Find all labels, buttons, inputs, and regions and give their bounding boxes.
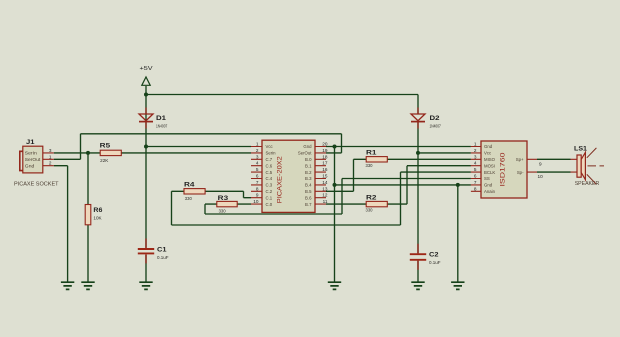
svg-text:C.2: C.2 (266, 189, 273, 194)
svg-text:SPEAKER: SPEAKER (575, 181, 600, 187)
svg-text:R4: R4 (184, 182, 195, 189)
svg-text:Gnd: Gnd (484, 183, 493, 188)
svg-text:20: 20 (322, 142, 328, 147)
svg-text:J1: J1 (26, 139, 35, 146)
svg-text:10K: 10K (93, 216, 102, 221)
svg-text:0.1uF: 0.1uF (429, 260, 441, 265)
svg-text:8: 8 (256, 186, 259, 191)
svg-text:1: 1 (49, 154, 52, 159)
svg-text:D1: D1 (156, 115, 166, 122)
svg-text:3: 3 (49, 148, 52, 153)
svg-text:SerIn: SerIn (25, 151, 37, 156)
svg-text:MISO: MISO (484, 157, 496, 162)
svg-text:Vcc: Vcc (484, 151, 492, 156)
svg-text:17: 17 (322, 161, 328, 166)
svg-text:LS1: LS1 (574, 146, 587, 153)
svg-text:C.4: C.4 (266, 176, 273, 181)
svg-text:2: 2 (474, 148, 477, 153)
svg-text:6: 6 (474, 174, 477, 179)
svg-text:+5V: +5V (140, 66, 153, 72)
svg-text:5: 5 (256, 167, 259, 172)
svg-text:9: 9 (256, 193, 259, 198)
svg-text:15: 15 (322, 174, 328, 179)
svg-text:C.7: C.7 (266, 157, 273, 162)
svg-text:B.2: B.2 (305, 170, 312, 175)
svg-text:BCLK: BCLK (484, 170, 495, 175)
svg-text:4: 4 (256, 161, 259, 166)
svg-text:16: 16 (322, 167, 328, 172)
svg-text:C.6: C.6 (266, 163, 273, 168)
svg-text:3: 3 (474, 154, 477, 159)
svg-text:8: 8 (474, 186, 477, 191)
svg-text:B.4: B.4 (305, 183, 312, 188)
svg-text:2: 2 (256, 148, 259, 153)
svg-text:10: 10 (253, 199, 259, 204)
svg-text:10: 10 (538, 174, 544, 179)
svg-text:Gnd: Gnd (303, 144, 312, 149)
svg-text:PICAXE-20X2: PICAXE-20X2 (277, 156, 284, 204)
svg-text:Anain: Anain (484, 189, 496, 194)
svg-text:ISD1760: ISD1760 (500, 152, 507, 187)
svg-text:1N4007: 1N4007 (156, 123, 168, 128)
svg-text:SerOut: SerOut (25, 157, 41, 162)
svg-text:R6: R6 (93, 207, 102, 214)
svg-text:C1: C1 (157, 247, 167, 254)
svg-text:330: 330 (219, 209, 226, 214)
svg-text:5: 5 (474, 167, 477, 172)
svg-text:Gnd: Gnd (25, 163, 35, 168)
svg-text:B.7: B.7 (305, 202, 312, 207)
svg-text:19: 19 (322, 148, 328, 153)
svg-text:R1: R1 (366, 150, 377, 157)
svg-text:9: 9 (539, 161, 542, 166)
svg-text:MOSI: MOSI (484, 163, 495, 168)
svg-text:330: 330 (366, 207, 373, 212)
svg-text:C.0: C.0 (266, 202, 273, 207)
svg-text:6: 6 (256, 174, 259, 179)
svg-text:B.0: B.0 (305, 157, 312, 162)
svg-text:1: 1 (474, 142, 477, 147)
svg-text:B.6: B.6 (305, 195, 312, 200)
svg-text:330: 330 (366, 163, 373, 168)
svg-text:B.1: B.1 (305, 163, 312, 168)
svg-text:C.1: C.1 (266, 195, 273, 200)
svg-text:D2: D2 (430, 115, 440, 122)
svg-text:7: 7 (256, 180, 259, 185)
svg-text:R2: R2 (366, 194, 377, 201)
svg-text:Vcc: Vcc (266, 144, 274, 149)
svg-text:4: 4 (474, 161, 477, 166)
svg-text:Sp-: Sp- (517, 170, 524, 175)
svg-text:C.3: C.3 (266, 183, 273, 188)
svg-text:13: 13 (322, 186, 328, 191)
svg-text:2: 2 (49, 161, 52, 166)
svg-text:18: 18 (322, 154, 328, 159)
svg-text:Serin: Serin (266, 151, 277, 156)
svg-text:C.5: C.5 (266, 170, 273, 175)
svg-text:C2: C2 (429, 252, 439, 259)
svg-text:12: 12 (322, 193, 328, 198)
svg-text:7: 7 (474, 180, 477, 185)
svg-text:0.1uF: 0.1uF (157, 255, 169, 260)
svg-text:3: 3 (256, 154, 259, 159)
svg-text:11: 11 (323, 199, 328, 204)
svg-text:SerOut: SerOut (298, 151, 312, 156)
svg-text:Sp+: Sp+ (516, 157, 524, 162)
svg-text:330: 330 (185, 196, 192, 201)
svg-text:SS: SS (484, 176, 490, 181)
svg-text:1: 1 (256, 142, 259, 147)
svg-text:1N4007: 1N4007 (430, 123, 442, 128)
svg-text:R5: R5 (100, 143, 111, 150)
svg-text:Gnd: Gnd (484, 144, 493, 149)
svg-text:PICAXE SOCKET: PICAXE SOCKET (14, 181, 59, 187)
svg-text:14: 14 (322, 180, 328, 185)
svg-text:R3: R3 (218, 195, 229, 202)
svg-text:B.3: B.3 (305, 176, 312, 181)
svg-text:22K: 22K (100, 158, 109, 163)
svg-text:B.5: B.5 (305, 189, 312, 194)
